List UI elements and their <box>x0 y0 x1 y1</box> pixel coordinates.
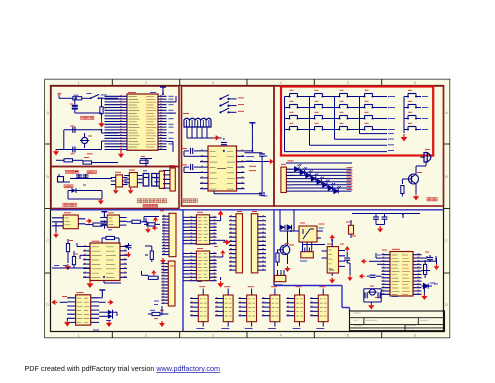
wire U7 bus left <box>183 217 189 243</box>
key switch S10 <box>314 112 324 119</box>
IC U9 small <box>300 248 313 262</box>
regulator U-7805 <box>111 172 128 187</box>
IC U7 driver <box>189 212 216 244</box>
key switch S1 <box>289 90 299 97</box>
power flag VCC MAX232 <box>245 123 256 151</box>
IC U2 <box>83 241 127 280</box>
label input voltage <box>66 170 79 173</box>
relay K1 <box>294 224 325 242</box>
key switch S6 <box>314 101 324 108</box>
net arrow U7 <box>217 239 230 245</box>
resistor R8 <box>127 218 147 223</box>
ground C14 <box>126 252 131 258</box>
capacitor C7 electrolytic <box>152 174 157 187</box>
title block <box>350 311 445 332</box>
svg-text:A: A <box>46 110 49 115</box>
sheet zone tick marks <box>45 80 450 338</box>
wire U12 right nets <box>422 256 437 271</box>
wire expansion low <box>142 271 149 275</box>
capacitor C2 <box>71 126 76 133</box>
label MCU minimal system <box>137 199 166 203</box>
resistor R14 <box>148 310 168 315</box>
resistor R7 <box>85 223 107 226</box>
diode D10 <box>99 310 117 316</box>
ground buzzer <box>413 184 419 201</box>
display driver Q4 <box>239 287 257 329</box>
resistor R5 <box>140 157 148 164</box>
regulator U-llo <box>124 170 142 187</box>
power flag VCC U5 <box>101 212 107 218</box>
power arrow right of U10 <box>345 246 350 257</box>
wire buzzer collector <box>416 162 426 175</box>
key switch S12 <box>364 112 374 119</box>
key switch S7 <box>339 101 349 108</box>
svg-text:D: D <box>445 302 448 307</box>
ground battery <box>98 199 104 205</box>
ground below J-expansion A <box>160 258 166 264</box>
wire MCU right nets <box>167 96 177 152</box>
wire led top rail <box>286 161 352 163</box>
ground U10 <box>329 273 335 284</box>
LED D8 <box>328 183 335 190</box>
net arrow RXD <box>269 159 274 164</box>
keypad row wires <box>287 97 395 130</box>
IC U11 small vertical <box>346 220 354 238</box>
wire reset top <box>59 98 119 107</box>
capacitor C1 electrolytic <box>70 98 102 113</box>
power jack J-power <box>58 174 71 182</box>
ground R8 <box>145 222 151 233</box>
power arrow serial <box>213 135 220 141</box>
key switch S2 <box>314 90 324 97</box>
IC U3 MAX232 <box>200 146 245 191</box>
capacitor C12 <box>214 156 268 197</box>
power flag VCC U6 <box>99 290 105 298</box>
ground keypad <box>401 97 408 142</box>
key switch S5 <box>289 101 299 108</box>
wire U2 left <box>52 243 90 268</box>
ground U8 <box>217 277 224 288</box>
key switch S20 extra column <box>404 123 428 130</box>
resistor R13 <box>148 276 159 279</box>
wire battery loop <box>68 191 102 200</box>
IC U6 <box>67 293 99 326</box>
led row wires <box>294 168 353 192</box>
label reset circuit <box>81 116 94 119</box>
wire strip right <box>99 159 152 167</box>
resistor R1 <box>73 95 82 100</box>
transistor Q1 <box>409 173 423 185</box>
label regulator section <box>63 203 77 206</box>
ground regulator B <box>128 188 134 194</box>
power arrow U8 top <box>217 250 226 257</box>
resistor R4 <box>83 158 99 165</box>
capacitor C10 <box>182 164 200 172</box>
connector J-seg1 <box>229 214 243 273</box>
key switch S3 <box>339 90 349 97</box>
svg-text:D: D <box>46 302 49 307</box>
key switch S16 <box>364 123 374 130</box>
net arrow U6 right <box>108 299 114 305</box>
LED D2 <box>295 164 302 171</box>
ground U2 bottom <box>87 281 94 289</box>
buzzer LS1 <box>421 150 431 163</box>
IC U10 vertical <box>322 244 346 273</box>
net arrow U12 left <box>361 259 382 264</box>
power flag VCC MCU <box>160 87 166 94</box>
ground expansion low <box>154 301 165 327</box>
connector J-reg <box>154 171 164 188</box>
power arrow expansion2 <box>151 270 156 275</box>
capacitor C4 <box>75 172 82 179</box>
crystal Y2 <box>368 289 380 297</box>
ground U6 right <box>106 320 112 327</box>
capacitor C19 <box>365 292 367 298</box>
label regulator right <box>87 171 96 174</box>
label battery <box>64 185 73 188</box>
key switch S15 <box>339 123 349 130</box>
wire U8 bus left <box>183 254 189 281</box>
IC U5 small <box>100 213 126 228</box>
ground U4 <box>53 222 59 238</box>
net arrow U4 out <box>86 218 92 223</box>
capacitor C14 <box>126 243 132 250</box>
LED D7 <box>323 180 330 187</box>
key switch S18 extra column <box>404 101 428 108</box>
wire U6 left net <box>60 301 68 303</box>
IC U12 RTC <box>382 249 422 296</box>
sheet inner border <box>51 86 444 332</box>
key switch S14 <box>314 123 324 130</box>
capacitor C21 <box>422 255 434 262</box>
wire U12 left nets <box>376 253 382 264</box>
display driver Q7 <box>310 287 328 329</box>
caption pdfFactory text <box>25 364 220 373</box>
wire crystal top <box>64 130 119 133</box>
wire crystal loop right <box>364 289 381 302</box>
component value labels <box>62 211 438 330</box>
power arrow expansion <box>153 217 158 223</box>
wire MAX232 RXD <box>245 162 270 171</box>
connector J-led <box>281 164 294 192</box>
switch S-reset <box>87 94 107 100</box>
svg-text:C: C <box>46 238 49 243</box>
LED D3 <box>300 167 307 174</box>
capacitor C15 <box>344 258 350 263</box>
wire crystal bottom <box>64 141 119 150</box>
key switch S8 <box>364 101 374 108</box>
wire top rail right <box>352 214 420 219</box>
key switch S17 extra column <box>404 90 428 97</box>
connector J-expansion B <box>161 261 175 306</box>
resistor R16 <box>424 260 427 278</box>
transistor Q8 <box>280 245 294 255</box>
capacitor C17 <box>376 217 388 225</box>
wire bus relay <box>303 242 326 248</box>
ground D14 <box>421 288 427 300</box>
diode D13 <box>287 225 291 230</box>
ground crystal <box>53 149 64 155</box>
net arrow expansion left <box>152 225 157 230</box>
power arrow U7 top <box>217 211 224 221</box>
diode D1 <box>71 188 76 193</box>
keypad column wires <box>285 97 395 152</box>
jumper switches SW-boot <box>219 95 244 114</box>
resistor R11 <box>66 239 69 263</box>
capacitor C5 <box>83 174 89 185</box>
display driver Q3 <box>215 287 233 329</box>
capacitor C8 <box>208 143 227 151</box>
diode D11 <box>99 314 112 321</box>
net arrow C18 <box>359 274 370 279</box>
ground Q8 <box>285 255 291 272</box>
label C3 value <box>87 153 93 155</box>
key switch S13 <box>289 123 299 130</box>
wire relay top <box>280 210 294 231</box>
wire DB9 to cap <box>211 138 224 140</box>
wire U2 bottom2 <box>104 281 121 284</box>
display driver Q5 <box>262 287 280 329</box>
power flag VCC reset <box>58 93 62 98</box>
section box download circuit <box>182 86 275 206</box>
capacitor C18 <box>370 275 382 277</box>
MCU U1 AT89S52 <box>105 93 174 151</box>
diode D12 <box>280 225 285 230</box>
section box MCU minimal system <box>51 86 179 167</box>
wire U6 right net <box>99 301 105 303</box>
ground C21 <box>434 258 440 270</box>
capacitor C6 electrolytic <box>143 171 149 186</box>
LED D4 <box>306 170 313 177</box>
sheet outer border <box>45 80 450 338</box>
resistor R2 <box>100 107 107 114</box>
sheet zone labels <box>46 80 448 337</box>
connector J-seg2 <box>251 214 266 273</box>
wire Q8 collector <box>287 231 289 245</box>
section box voltage regulator <box>51 167 179 209</box>
svg-text:PDF created with pdfFactory tr: PDF created with pdfFactory trial versio… <box>25 364 220 373</box>
resistor R9b <box>144 223 160 226</box>
IC U4 small <box>52 213 85 229</box>
ground U2 left <box>65 264 71 270</box>
capacitor C3 <box>71 147 76 154</box>
LED D6 <box>317 177 324 184</box>
label date note <box>143 204 158 207</box>
LED D5 <box>311 174 318 181</box>
svg-text:B: B <box>46 174 49 179</box>
capacitor C16 <box>373 217 379 225</box>
resistor R6 base <box>401 179 412 197</box>
resistor R15 <box>276 250 283 266</box>
blue section dividers <box>51 210 444 332</box>
key switch S9 <box>289 112 299 119</box>
net arrow U6 left <box>52 299 58 305</box>
section box keypad and buzzer <box>274 86 444 206</box>
wire reset to gnd <box>101 114 103 123</box>
capacitor C20 <box>378 292 380 298</box>
key switch S4 <box>364 90 374 97</box>
power arrow U10 <box>329 235 335 247</box>
crystal Y1 <box>80 133 92 148</box>
diode D14 <box>422 283 436 289</box>
resistor R12 <box>72 251 75 268</box>
capacitor C9 <box>182 148 200 156</box>
resistor R10 <box>102 236 119 243</box>
capacitor C13 <box>102 221 108 229</box>
ground regulator A <box>113 188 119 194</box>
connector DB9 serial <box>183 114 211 139</box>
connector J-expansion A <box>162 213 176 256</box>
ground crystal Y2 <box>368 302 374 310</box>
svg-text:B: B <box>445 174 448 179</box>
resistor R9 <box>145 246 153 262</box>
label download section <box>182 199 198 203</box>
wire regulator rail <box>70 178 112 180</box>
LED D9 <box>334 186 341 193</box>
IC U8 driver <box>189 249 216 282</box>
svg-text:C: C <box>445 238 448 243</box>
resistor R3 <box>56 159 83 162</box>
ground below MCU <box>118 149 124 158</box>
display driver Q2 <box>190 287 208 329</box>
ground C16 <box>377 226 383 233</box>
ground reset <box>98 118 104 127</box>
svg-text:A: A <box>445 110 448 115</box>
ground C15 <box>347 261 353 282</box>
wire expansion top <box>144 217 159 222</box>
display driver Q6 <box>286 287 304 329</box>
ground U6 left <box>64 318 71 327</box>
wire crystal left <box>63 130 65 150</box>
capacitor C11 <box>259 153 265 192</box>
wire junction dots <box>67 93 425 287</box>
key switch S19 extra column <box>404 112 428 119</box>
connector J-relay out <box>275 270 286 285</box>
label buzzer <box>427 198 437 201</box>
key switch S11 <box>339 112 349 119</box>
keypad matrix red box <box>281 87 433 156</box>
connector J-out <box>163 166 175 192</box>
wire MAX232 TXD <box>245 153 263 161</box>
